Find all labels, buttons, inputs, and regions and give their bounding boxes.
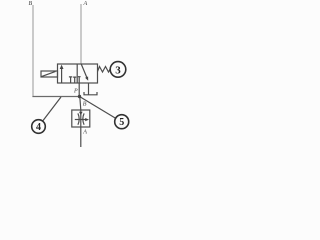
- svg-text:4: 4: [36, 122, 41, 133]
- svg-text:P: P: [73, 89, 78, 95]
- svg-text:3: 3: [115, 64, 121, 76]
- svg-text:5: 5: [119, 117, 124, 128]
- svg-text:B: B: [83, 101, 87, 107]
- svg-text:A: A: [83, 1, 88, 7]
- svg-text:A: A: [82, 129, 87, 135]
- svg-text:B: B: [29, 1, 33, 7]
